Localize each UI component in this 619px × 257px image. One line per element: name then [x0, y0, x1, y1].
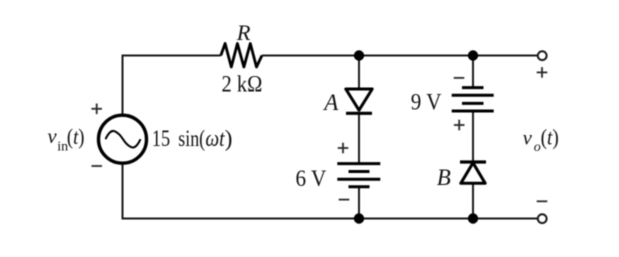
- wire middle branch between diode A and 6V battery: [358, 112, 360, 164]
- svg-text:2 kΩ: 2 kΩ: [222, 72, 263, 97]
- battery 9V plate long: [452, 94, 494, 97]
- svg-text:15: 15: [152, 126, 170, 151]
- svg-text:): ): [225, 126, 233, 151]
- source plus sign: [91, 104, 102, 115]
- diode A triangle: [346, 89, 372, 110]
- battery 6V plate short: [349, 170, 370, 173]
- svg-text:(t): (t): [541, 125, 559, 150]
- battery 6V plate long top: [337, 162, 380, 165]
- node dot bottom right: [468, 213, 478, 223]
- svg-text:9 V: 9 V: [411, 89, 442, 114]
- svg-text:v: v: [48, 126, 58, 148]
- resistor R1 zigzag: [221, 44, 262, 68]
- terminal minus sign: [537, 200, 548, 202]
- source minus sign: [92, 165, 103, 167]
- svg-text:R: R: [236, 20, 251, 45]
- battery 9V plate long bottom: [452, 110, 494, 113]
- svg-text:A: A: [322, 90, 339, 115]
- source vin circle: [99, 115, 147, 163]
- battery 9V plus sign: [454, 120, 465, 131]
- battery 6V minus sign: [339, 199, 350, 201]
- svg-text:6 V: 6 V: [296, 166, 327, 191]
- svg-text:ωt: ωt: [205, 126, 225, 151]
- source sine wave: [106, 131, 141, 148]
- battery 9V minus sign: [454, 77, 465, 79]
- wire middle branch lower: [358, 187, 360, 219]
- battery 6V plus sign: [338, 143, 349, 154]
- terminal bottom right: [538, 214, 547, 223]
- battery 6V plate short bottom: [349, 185, 370, 188]
- battery 6V plate long bottom: [337, 178, 380, 181]
- battery 9V plate short top: [462, 86, 484, 89]
- diode A cathode bar: [346, 112, 372, 115]
- wire middle branch upper: [358, 56, 360, 90]
- node dot top middle: [354, 50, 364, 60]
- diode B cathode bar: [460, 160, 486, 163]
- wire left bottom from source to bottom rail: [123, 165, 538, 219]
- diode B triangle: [461, 163, 485, 184]
- wire right branch upper: [472, 56, 474, 88]
- node dot top right: [468, 50, 478, 60]
- wire right branch between 9V battery and diode B: [472, 111, 474, 162]
- terminal top right: [538, 51, 547, 60]
- wire right branch lower: [472, 184, 474, 219]
- svg-text:B: B: [437, 165, 451, 190]
- svg-text:sin(: sin(: [178, 126, 205, 151]
- wire top from resistor to right terminal: [262, 55, 538, 57]
- svg-text:v: v: [523, 127, 533, 149]
- wire top from left corner to resistor: [123, 56, 221, 115]
- battery 9V plate short middle: [462, 102, 484, 105]
- node dot bottom middle: [354, 213, 364, 223]
- terminal plus sign: [537, 67, 548, 78]
- svg-text:(t): (t): [67, 124, 85, 149]
